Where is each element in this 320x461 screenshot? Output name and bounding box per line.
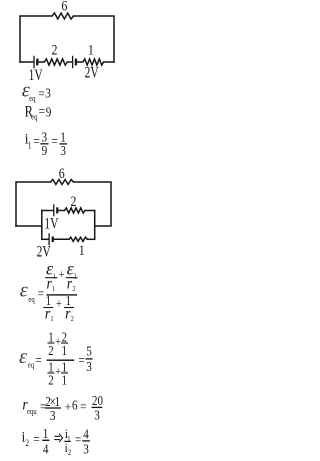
svg-text:=: = (35, 352, 41, 367)
svg-text:r: r (47, 275, 52, 292)
svg-text:2: 2 (48, 373, 53, 388)
resistor 2 (top branch circuit 2) (65, 208, 86, 213)
svg-text:=: = (78, 352, 84, 367)
svg-text:eq: eq (31, 112, 38, 122)
battery 1V circuit 2 (long plate) (53, 204, 55, 216)
svg-text:5: 5 (86, 343, 92, 358)
resistor 1 (middle branch circuit 1) (83, 59, 104, 65)
wire bottom branch left segment circuit 1 (20, 61, 33, 63)
wire inner left vertical (junction of two branches) (41, 211, 43, 240)
svg-text:+: + (55, 334, 61, 348)
wire bottom branch right segment circuit 1 (104, 61, 114, 63)
svg-text:4: 4 (43, 441, 49, 456)
circuit 2 outer loop: left and top and right wires (16, 182, 51, 226)
svg-text:r: r (65, 305, 70, 322)
wire between resistor 2 and battery 2V (67, 61, 72, 63)
svg-text:2: 2 (48, 343, 53, 358)
svg-text:1: 1 (62, 373, 67, 388)
svg-text:6: 6 (59, 165, 65, 181)
svg-text:1V: 1V (29, 67, 43, 84)
svg-text:+: + (59, 267, 65, 281)
svg-text:ε: ε (20, 279, 29, 301)
resistor 2 (middle branch circuit 1) (44, 59, 67, 65)
svg-text:9: 9 (46, 104, 52, 119)
wire between battery 1V and resistor 2 (38, 61, 44, 63)
svg-text:eq: eq (28, 294, 35, 304)
wire between battery 1V and resistor 2 circuit 2 (58, 210, 64, 212)
svg-text:+: + (56, 296, 62, 310)
battery 2V circuit 1 (long plate) (72, 56, 74, 68)
svg-text:=: = (51, 133, 57, 148)
svg-text:1V: 1V (44, 215, 58, 232)
svg-text:9: 9 (42, 143, 48, 158)
svg-text:3: 3 (83, 441, 89, 456)
svg-text:2: 2 (71, 316, 75, 324)
wire between battery 2V and resistor 1 (77, 61, 83, 63)
svg-text:3: 3 (50, 408, 56, 423)
svg-text:r: r (45, 305, 50, 322)
wire between battery 2V and resistor 1 circuit 2 (54, 238, 69, 240)
wire bottom branch right lead circuit 2 (87, 238, 94, 240)
svg-text:1: 1 (28, 140, 32, 151)
svg-text:1: 1 (51, 316, 54, 324)
svg-text:1: 1 (62, 343, 67, 358)
svg-text:2: 2 (71, 193, 77, 209)
battery 1V circuit 1 (long plate) (33, 56, 35, 68)
svg-text:1: 1 (52, 286, 55, 294)
svg-text:2: 2 (68, 447, 72, 457)
svg-text:=: = (75, 432, 81, 447)
wire bottom branch lead circuit 2 (42, 238, 49, 240)
svg-text:equ: equ (27, 406, 37, 416)
svg-text:3: 3 (45, 85, 51, 100)
svg-text:2: 2 (74, 273, 78, 281)
svg-text:2: 2 (73, 286, 77, 294)
svg-text:2V: 2V (37, 243, 51, 260)
wire top branch lead circuit 2 (42, 210, 53, 212)
circuit 1 loop wire: left, top-left, top-right, right sides (20, 16, 52, 62)
resistor 6 (top of circuit 2) (51, 180, 74, 185)
svg-text:eq: eq (29, 93, 36, 103)
battery 2V circuit 2 (long plate) (48, 233, 50, 245)
wire top branch right lead circuit 2 (85, 210, 95, 212)
svg-text:1: 1 (67, 434, 71, 444)
svg-text:=: = (80, 399, 86, 414)
battery 1V circuit 2 (short thick plate) (56, 207, 58, 213)
wire left connector node circuit 2 (16, 225, 42, 227)
battery 2V circuit 1 (short thick plate) (75, 59, 77, 66)
battery 2V circuit 2 (short thick plate) (52, 237, 54, 243)
svg-text:3: 3 (94, 407, 100, 422)
svg-text:2: 2 (52, 42, 58, 58)
svg-text:4: 4 (83, 426, 89, 441)
svg-text:6: 6 (61, 0, 67, 14)
svg-text:1: 1 (43, 426, 49, 441)
svg-text:=: = (33, 431, 39, 446)
svg-text:ε: ε (19, 346, 28, 368)
resistor 1 (bottom branch circuit 2) (69, 237, 87, 241)
svg-text:r: r (67, 275, 72, 292)
svg-text:3: 3 (86, 359, 92, 374)
svg-text:=: = (39, 103, 45, 118)
battery 1V circuit 1 (short thick plate) (36, 59, 38, 66)
svg-text:=: = (33, 133, 39, 148)
svg-text:+: + (65, 399, 71, 414)
svg-text:6: 6 (72, 397, 78, 412)
svg-text:eq: eq (28, 360, 35, 370)
implies double arrow (54, 434, 62, 443)
svg-text:2: 2 (25, 437, 29, 448)
svg-text:=: = (38, 286, 44, 301)
svg-text:20: 20 (92, 393, 103, 409)
svg-text:=: = (38, 86, 44, 101)
svg-text:+: + (55, 365, 61, 379)
svg-text:1: 1 (53, 273, 56, 281)
wire inner right vertical (junction of two branches) (94, 211, 96, 240)
svg-text:1: 1 (79, 242, 85, 258)
svg-text:1: 1 (88, 42, 94, 58)
resistor 6 (top of circuit 1) (52, 13, 74, 19)
svg-text:3: 3 (60, 143, 66, 158)
